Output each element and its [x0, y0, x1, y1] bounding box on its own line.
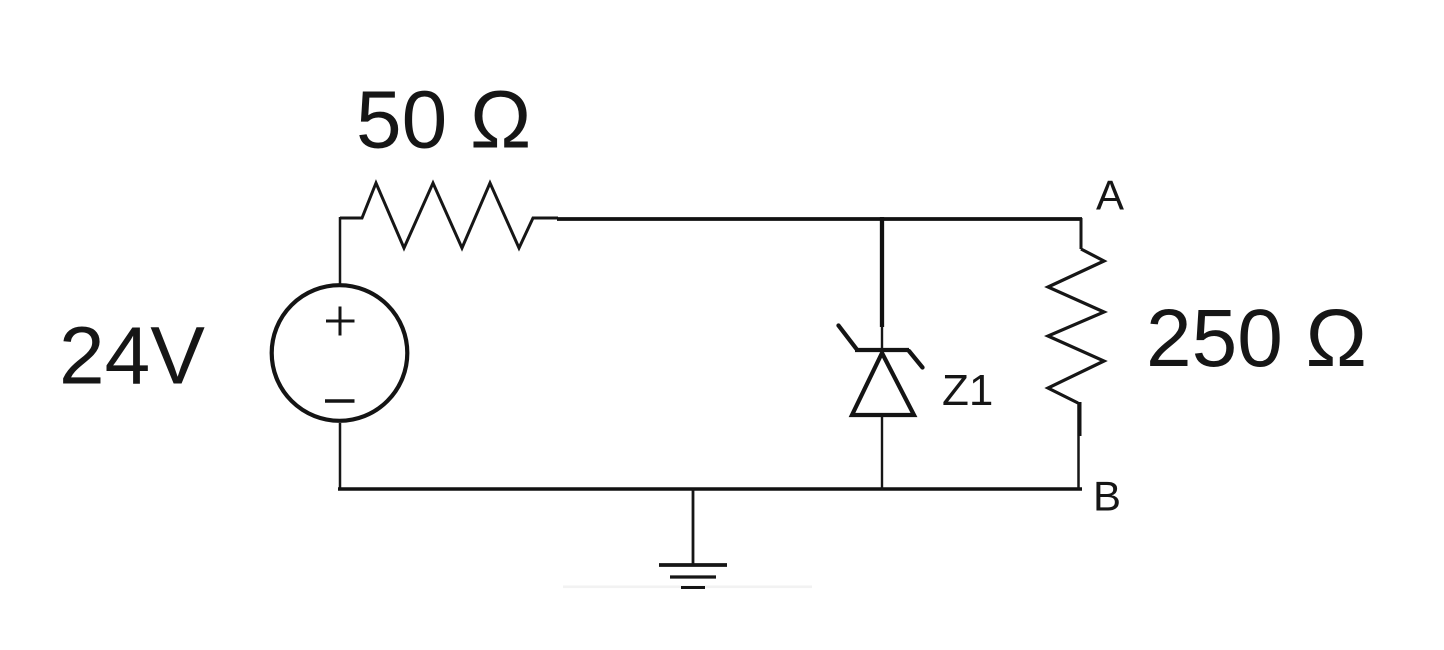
- wire: top lead from source to R1: [339, 217, 342, 287]
- svg-text:B: B: [1093, 473, 1121, 520]
- svg-text:50 Ω: 50 Ω: [356, 75, 531, 166]
- wire: source bottom lead: [339, 423, 342, 489]
- wire: zener branch top: [880, 217, 884, 327]
- wire: bottom rail: [338, 487, 1082, 491]
- zener diode Z1: [839, 326, 923, 416]
- resistor R1 (50 Ω) zigzag: [340, 183, 558, 248]
- wire: top rail from R1 to node A corner: [557, 217, 1082, 221]
- wire: zener branch bottom: [881, 415, 883, 490]
- resistor R2 (250 Ω) zigzag with leads: [1048, 218, 1104, 489]
- svg-text:A: A: [1096, 172, 1124, 219]
- svg-text:24V: 24V: [59, 311, 205, 402]
- voltage source V1 (24V): [272, 285, 408, 421]
- ground: [563, 489, 812, 588]
- svg-text:Z1: Z1: [942, 366, 993, 415]
- svg-text:250 Ω: 250 Ω: [1146, 293, 1367, 384]
